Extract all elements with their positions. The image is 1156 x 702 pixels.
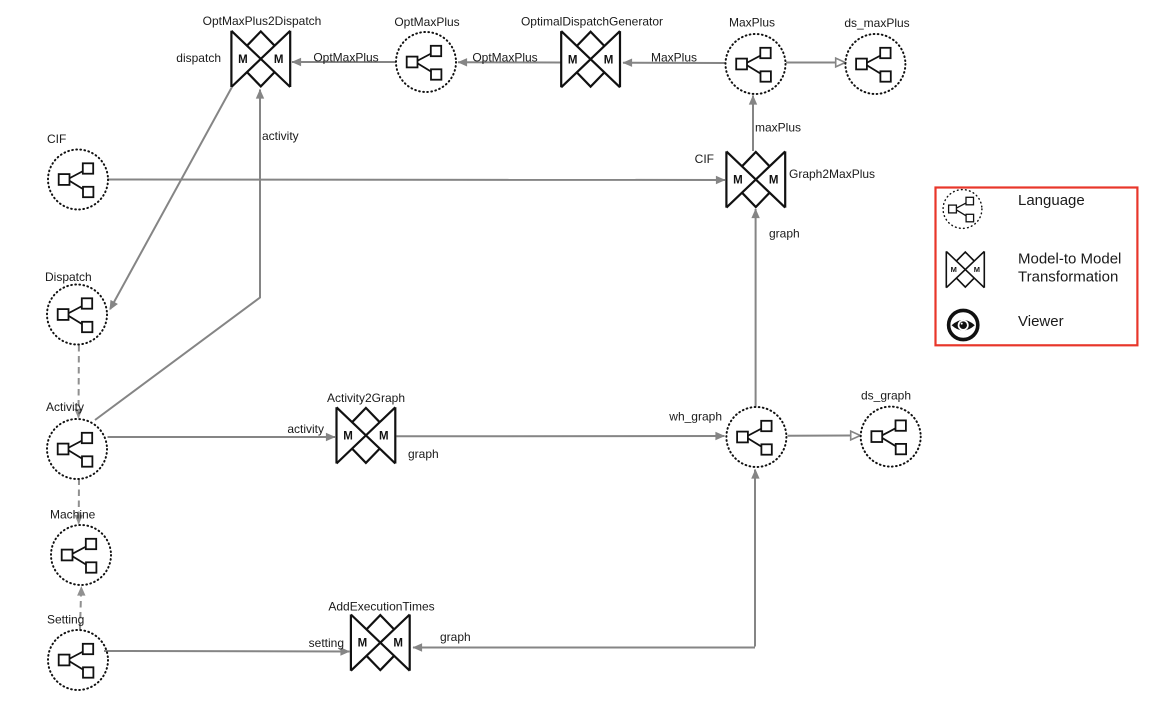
wire MaxPlus to ds_maxPlus <box>786 62 836 64</box>
language Dispatch <box>47 285 107 345</box>
wire Activity to OptMaxPlus2Dispatch (activity, bent) <box>95 90 260 421</box>
wire Setting to AddExecutionTimes (setting) <box>104 650 350 653</box>
svg-text:graph: graph <box>769 227 800 241</box>
transformation Activity2Graph <box>337 407 396 463</box>
svg-text:M: M <box>951 265 957 274</box>
svg-text:M: M <box>358 638 368 650</box>
wire wh_graph to Graph2MaxPlus (graph) <box>755 209 757 407</box>
svg-text:setting: setting <box>309 636 344 650</box>
svg-text:MaxPlus: MaxPlus <box>651 51 697 65</box>
svg-text:activity: activity <box>287 422 324 436</box>
legend viewer icon <box>949 310 978 339</box>
wire OptimalDispatchGenerator to OptMaxPlus <box>458 61 561 63</box>
wire OptMaxPlus to OptMaxPlus2Dispatch <box>292 61 396 63</box>
svg-text:ds_maxPlus: ds_maxPlus <box>844 16 909 30</box>
svg-text:OptMaxPlus2Dispatch: OptMaxPlus2Dispatch <box>203 14 322 28</box>
svg-text:OptMaxPlus: OptMaxPlus <box>472 51 537 65</box>
svg-text:M: M <box>274 54 284 66</box>
wire CIF to Graph2MaxPlus <box>108 179 725 182</box>
svg-text:CIF: CIF <box>695 152 714 166</box>
legend transformation icon <box>946 251 984 287</box>
wire Activity2Graph to wh_graph (graph) <box>397 435 725 437</box>
language Setting <box>48 630 108 690</box>
svg-text:Viewer: Viewer <box>1018 313 1064 330</box>
language Machine <box>51 525 111 585</box>
svg-text:AddExecutionTimes: AddExecutionTimes <box>328 600 434 614</box>
wire Setting to Machine (dashed) <box>80 587 81 630</box>
language ds_maxPlus <box>845 34 905 94</box>
legend box <box>936 188 1138 346</box>
svg-text:OptMaxPlus: OptMaxPlus <box>394 15 459 29</box>
svg-text:Activity2Graph: Activity2Graph <box>327 391 405 405</box>
svg-text:M: M <box>238 54 248 66</box>
svg-text:graph: graph <box>440 630 471 644</box>
svg-text:Setting: Setting <box>47 613 84 627</box>
svg-text:wh_graph: wh_graph <box>668 410 722 424</box>
transformation Graph2MaxPlus <box>726 151 785 207</box>
svg-text:M: M <box>393 638 403 650</box>
svg-text:M: M <box>568 54 578 66</box>
language CIF <box>48 150 108 210</box>
svg-text:dispatch: dispatch <box>176 51 221 65</box>
svg-text:Language: Language <box>1018 192 1085 209</box>
language Activity <box>47 419 107 479</box>
svg-text:ds_graph: ds_graph <box>861 389 911 403</box>
svg-text:M: M <box>343 431 353 443</box>
svg-text:Model-to Model: Model-to Model <box>1018 251 1121 268</box>
svg-text:Machine: Machine <box>50 508 96 522</box>
wire MaxPlus to OptimalDispatchGenerator <box>623 62 725 64</box>
svg-text:OptimalDispatchGenerator: OptimalDispatchGenerator <box>521 15 663 29</box>
language MaxPlus <box>726 34 786 94</box>
svg-text:MaxPlus: MaxPlus <box>729 16 775 30</box>
wire Graph2MaxPlus to MaxPlus (maxPlus) <box>752 96 754 152</box>
wire Activity to Activity2Graph (activity) <box>108 436 336 438</box>
svg-text:CIF: CIF <box>47 132 66 146</box>
transformation OptMaxPlus2Dispatch <box>231 31 290 87</box>
wire OptMaxPlus2Dispatch to Dispatch (dispatch) <box>110 88 232 310</box>
legend language icon <box>943 190 982 229</box>
svg-text:maxPlus: maxPlus <box>755 121 801 135</box>
language OptMaxPlus <box>396 32 456 92</box>
svg-text:M: M <box>604 54 614 66</box>
svg-text:M: M <box>733 175 743 187</box>
wire Dispatch to Activity (dashed) <box>78 345 80 418</box>
svg-text:graph: graph <box>408 447 439 461</box>
transformation AddExecutionTimes <box>351 615 410 671</box>
svg-text:activity: activity <box>262 129 299 143</box>
svg-text:OptMaxPlus: OptMaxPlus <box>313 51 378 65</box>
wire wh_graph to AddExecutionTimes (graph, L-shaped) <box>413 470 755 648</box>
svg-text:M: M <box>769 175 779 187</box>
language ds_graph <box>861 407 921 467</box>
svg-text:M: M <box>379 431 389 443</box>
svg-text:Activity: Activity <box>46 400 84 414</box>
transformation OptimalDispatchGenerator <box>561 31 620 87</box>
svg-text:Graph2MaxPlus: Graph2MaxPlus <box>789 167 875 181</box>
svg-text:M: M <box>974 265 980 274</box>
wire wh_graph to ds_graph <box>788 435 852 437</box>
wire Activity to Machine (dashed) <box>78 479 80 524</box>
language wh_graph <box>726 407 786 467</box>
svg-text:Dispatch: Dispatch <box>45 270 92 284</box>
svg-text:Transformation: Transformation <box>1018 268 1118 285</box>
